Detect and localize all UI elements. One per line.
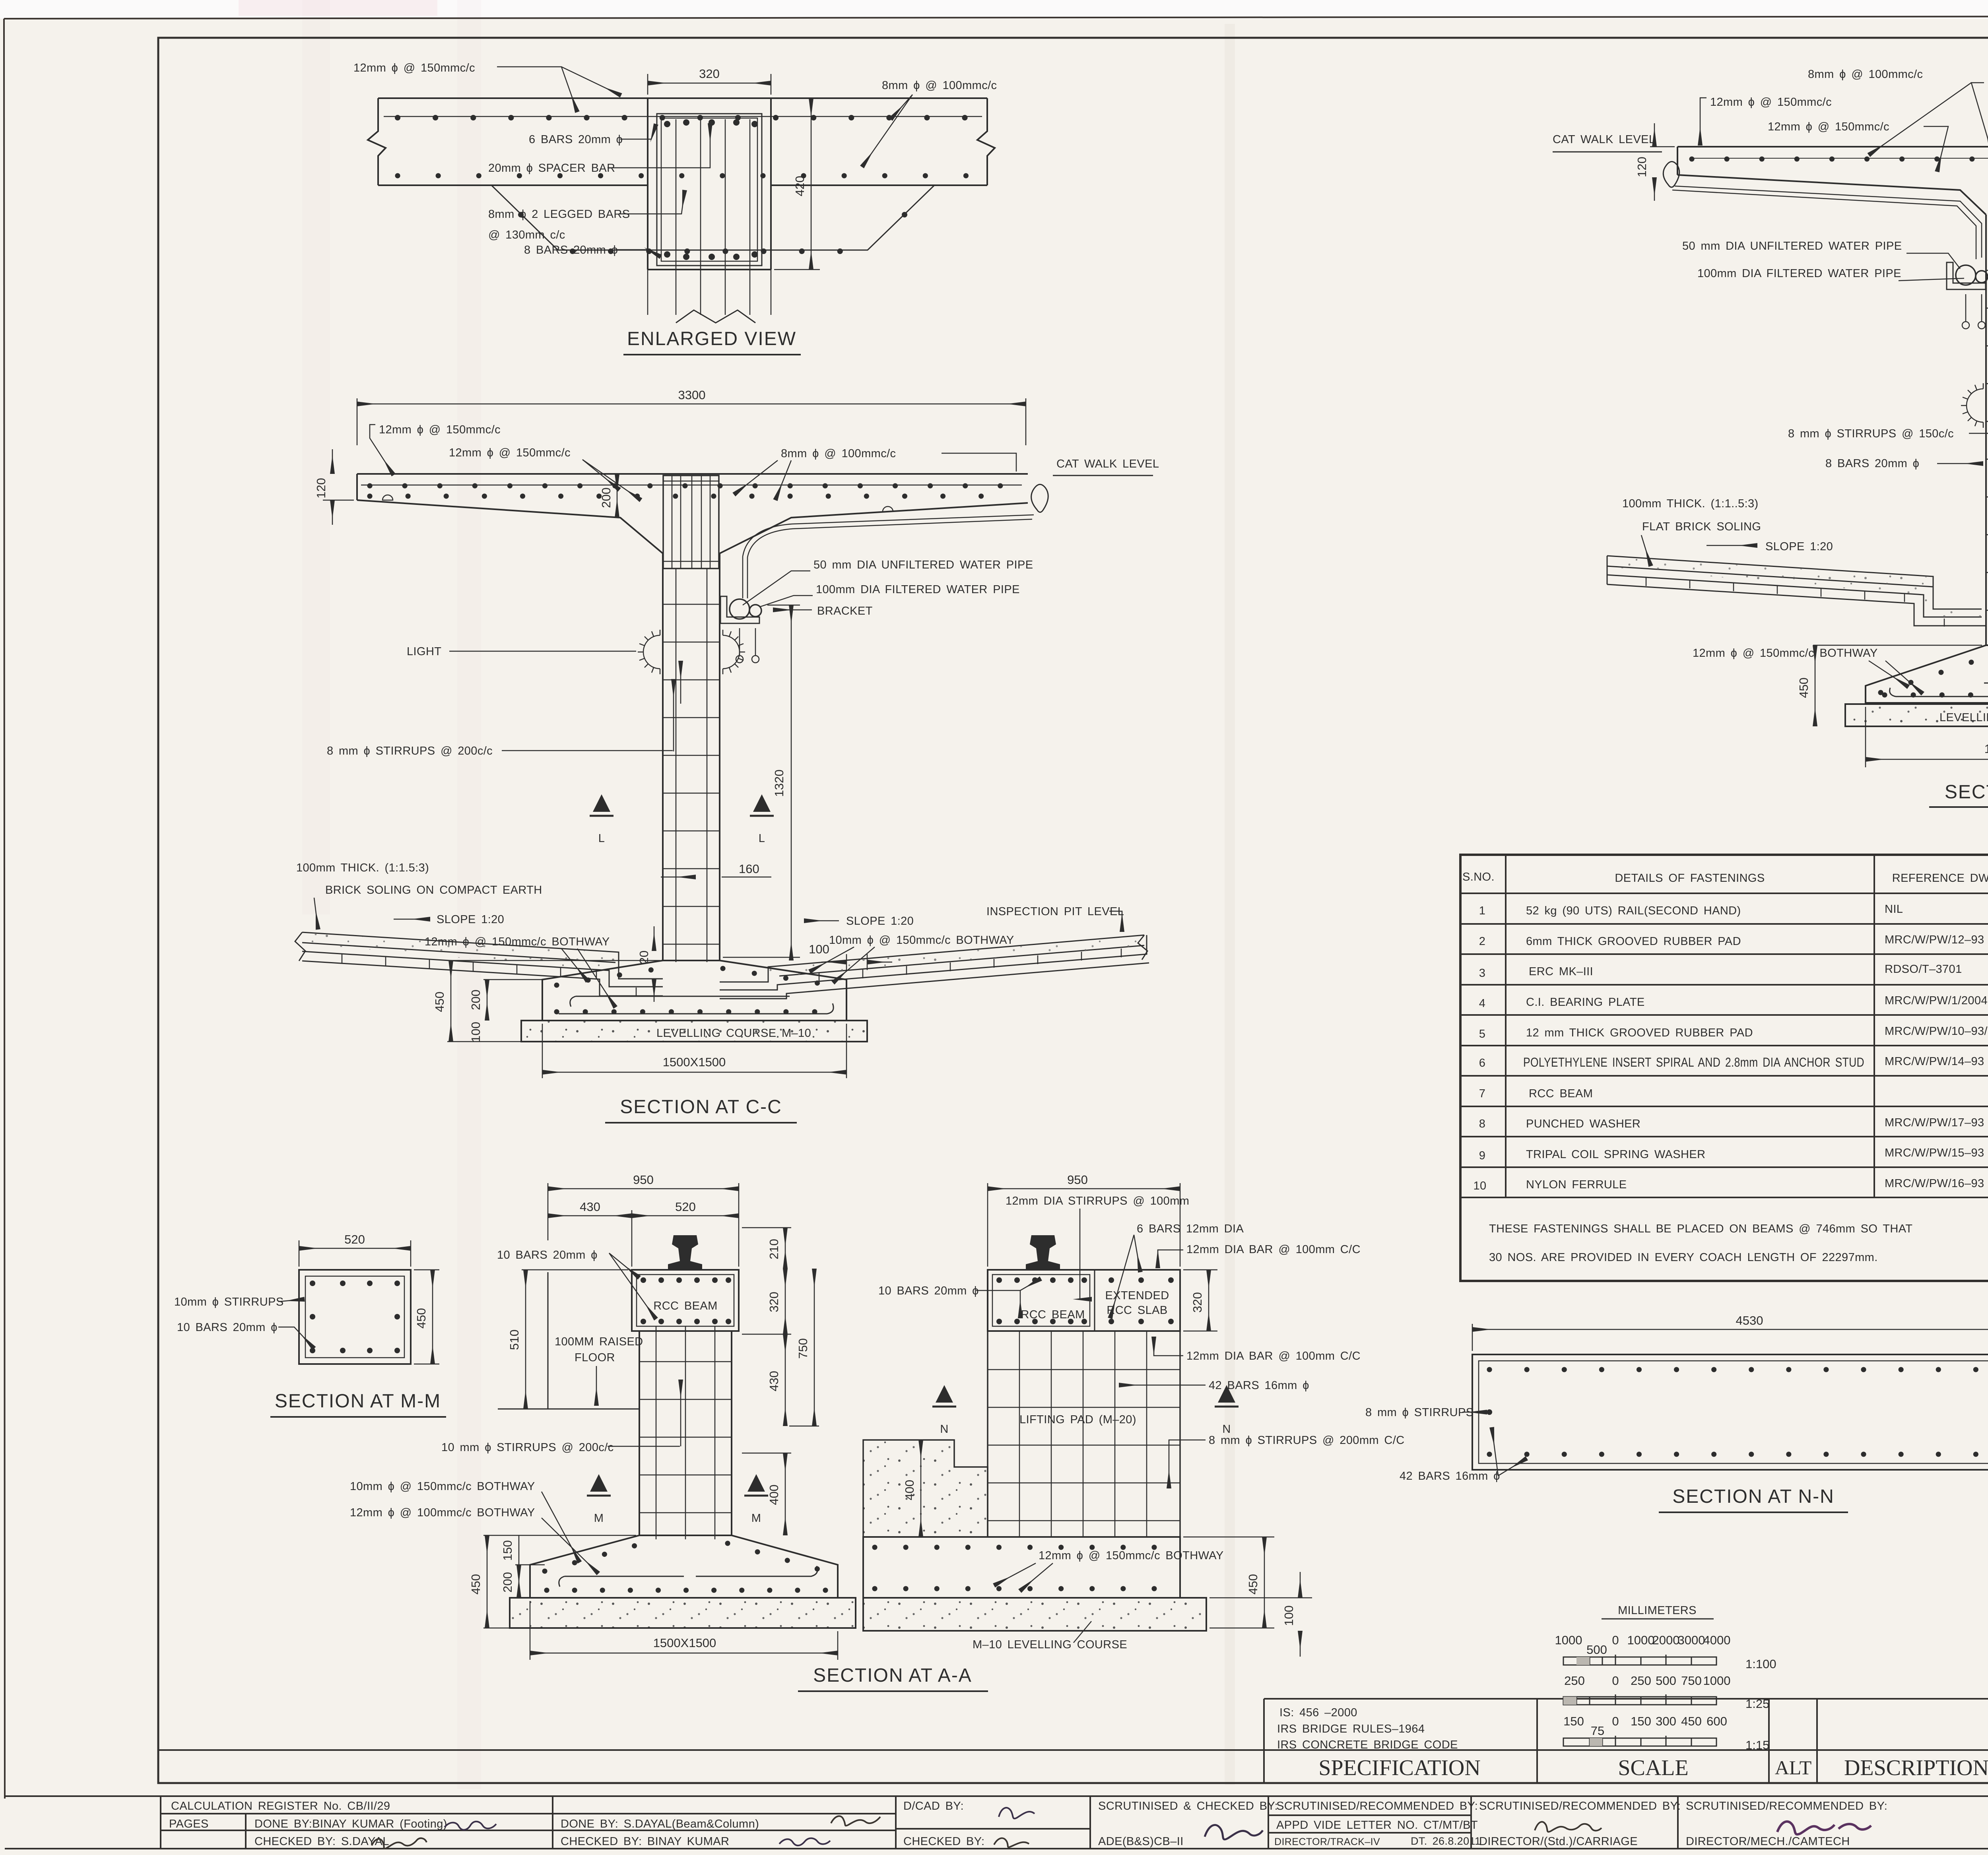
svg-text:10 BARS 20mm ϕ: 10 BARS 20mm ϕ [878, 1285, 979, 1297]
enlarged view dim 420 [774, 98, 820, 270]
svg-text:IRS CONCRETE BRIDGE CODE: IRS CONCRETE BRIDGE CODE [1277, 1739, 1458, 1751]
svg-text:MRC/W/PW/17–93: MRC/W/PW/17–93 [1885, 1116, 1984, 1129]
section A-A dim 510 [522, 1270, 628, 1409]
svg-text:SCRUTINISED & CHECKED BY:: SCRUTINISED & CHECKED BY: [1098, 1800, 1278, 1812]
svg-text:42 BARS 16mm ϕ: 42 BARS 16mm ϕ [1400, 1470, 1500, 1482]
svg-text:8 BARS 20mm ϕ: 8 BARS 20mm ϕ [1825, 457, 1919, 470]
svg-text:1:100: 1:100 [1745, 1657, 1776, 1671]
svg-text:MRC/W/PW/16–93: MRC/W/PW/16–93 [1885, 1177, 1984, 1190]
svg-text:ALT: ALT [1775, 1756, 1812, 1779]
signature s.dayal 1 [372, 1838, 427, 1849]
section C-C levelling course [521, 1021, 867, 1042]
svg-text:REFERENCE DWG.: REFERENCE DWG. [1892, 872, 1988, 885]
svg-text:M: M [751, 1512, 761, 1525]
svg-text:MRC/W/PW/1/2004: MRC/W/PW/1/2004 [1885, 994, 1988, 1007]
svg-text:RCC BEAM: RCC BEAM [1529, 1087, 1593, 1100]
section B-B slab [1677, 147, 1988, 215]
svg-text:12mm ϕ @ 150mmc/c BOTHWAY: 12mm ϕ @ 150mmc/c BOTHWAY [425, 935, 610, 948]
lifting pad levelling [863, 1598, 1206, 1631]
svg-text:1000: 1000 [1703, 1674, 1731, 1688]
dim 1500x1500 C-C [542, 1024, 846, 1078]
light burst left C-C [638, 630, 660, 674]
svg-text:RCC BEAM: RCC BEAM [653, 1300, 717, 1312]
svg-text:8 mm ϕ STIRRUPS @ 200c/c: 8 mm ϕ STIRRUPS @ 200c/c [327, 745, 493, 757]
svg-text:4000: 4000 [1703, 1633, 1731, 1647]
signature dcad checked [994, 1838, 1029, 1847]
svg-text:10 mm ϕ STIRRUPS @ 200c/c: 10 mm ϕ STIRRUPS @ 200c/c [441, 1441, 614, 1454]
svg-text:12mm ϕ @ 150mmc/c: 12mm ϕ @ 150mmc/c [1710, 96, 1832, 109]
section C-C embedded beam [663, 475, 719, 569]
signature dcad [999, 1808, 1035, 1818]
dims 450 200 100 C-C [447, 960, 660, 1042]
enlarged view slab [368, 98, 995, 185]
floor right stipple C-C [768, 936, 1144, 982]
enlarged view column bars below [648, 119, 771, 323]
dim 400 in block [920, 1440, 922, 1537]
section A-A dim 320 [742, 1269, 791, 1334]
section C-C slab notches [382, 495, 893, 512]
enlarged view beam [648, 98, 771, 270]
section N-N stirrup [1479, 1361, 1988, 1463]
svg-text:8 mm ϕ STIRRUPS: 8 mm ϕ STIRRUPS [1365, 1406, 1474, 1419]
svg-text:12mm ϕ @ 150mmc/c BOTHWAY: 12mm ϕ @ 150mmc/c BOTHWAY [1693, 647, 1878, 660]
svg-text:ENLARGED VIEW: ENLARGED VIEW [627, 328, 796, 349]
section M-M dim 450 [414, 1270, 439, 1364]
svg-text:SPECIFICATION: SPECIFICATION [1318, 1756, 1481, 1780]
dim 450 B-B [1813, 645, 1982, 726]
svg-text:9: 9 [1479, 1149, 1486, 1162]
datum M right [744, 1474, 768, 1496]
floor left stipple C-C [302, 933, 619, 979]
svg-text:2: 2 [1479, 935, 1486, 948]
svg-text:4: 4 [1479, 997, 1486, 1010]
svg-text:12mm DIA STIRRUPS @ 100mm: 12mm DIA STIRRUPS @ 100mm [1006, 1195, 1189, 1207]
svg-text:ERC MK–III: ERC MK–III [1529, 965, 1593, 978]
enlarged view spacer bars chord [491, 185, 934, 250]
dim 1320 C-C [723, 605, 800, 960]
svg-text:C.I. BEARING PLATE: C.I. BEARING PLATE [1526, 996, 1645, 1009]
svg-text:THESE FASTENINGS SHALL BE: THESE FASTENINGS SHALL BE PLACED ON BEAM… [1489, 1222, 1912, 1235]
light burst right C-C [723, 630, 745, 674]
svg-text:NYLON FERRULE: NYLON FERRULE [1526, 1178, 1627, 1191]
section N-N top bars [1489, 1367, 1988, 1372]
svg-text:CHECKED BY: BINAY KUMAR: CHECKED BY: BINAY KUMAR [561, 1835, 729, 1848]
svg-text:LIGHT: LIGHT [407, 645, 441, 658]
svg-text:LEVELLING COURSE M–10: LEVELLING COURSE M–10 [656, 1027, 811, 1040]
svg-text:120: 120 [1635, 157, 1649, 177]
svg-text:SECTION AT B-B: SECTION AT B-B [1945, 782, 1988, 803]
svg-text:N: N [940, 1423, 948, 1436]
section A-A raised floor [498, 1272, 639, 1409]
svg-text:10mm ϕ @ 150mmc/c BOTHWAY: 10mm ϕ @ 150mmc/c BOTHWAY [350, 1480, 535, 1493]
svg-text:450: 450 [433, 992, 447, 1012]
svg-text:430: 430 [580, 1200, 600, 1214]
svg-text:400: 400 [903, 1480, 916, 1500]
svg-text:DETAILS OF FASTENINGS: DETAILS OF FASTENINGS [1615, 872, 1765, 885]
svg-text:520: 520 [344, 1232, 365, 1246]
svg-text:SCRUTINISED/RECOMMENDED BY:: SCRUTINISED/RECOMMENDED BY: [1276, 1800, 1478, 1812]
svg-text:100mm THICK. (1:1..5:3): 100mm THICK. (1:1..5:3) [1622, 497, 1759, 510]
svg-text:MILLIMETERS: MILLIMETERS [1618, 1604, 1697, 1617]
svg-text:PUNCHED WASHER: PUNCHED WASHER [1526, 1118, 1640, 1130]
svg-text:750: 750 [1681, 1674, 1702, 1688]
svg-text:FLOOR: FLOOR [575, 1351, 615, 1364]
svg-text:NIL: NIL [1885, 903, 1903, 916]
svg-text:SECTION AT A-A: SECTION AT A-A [813, 1665, 972, 1686]
section B-B footing [1866, 645, 1988, 703]
section A-A footing [530, 1535, 838, 1598]
svg-text:7: 7 [1479, 1087, 1486, 1100]
svg-text:250: 250 [1631, 1674, 1651, 1688]
dim 1500x1500 B-B [1866, 707, 1988, 767]
lifting pad dim 450 [1183, 1537, 1274, 1628]
section C-C slab top rebar [361, 485, 1022, 486]
section M-M bars [310, 1281, 400, 1353]
svg-text:200: 200 [599, 487, 613, 508]
svg-text:200: 200 [501, 1572, 514, 1593]
svg-text:RCC SLAB: RCC SLAB [1107, 1304, 1167, 1317]
svg-text:8mm ϕ @ 100mmc/c: 8mm ϕ @ 100mmc/c [781, 447, 896, 460]
floor left C-C [295, 932, 663, 996]
signature kumar 2 [779, 1838, 830, 1845]
svg-text:LEVELLING COURSE M–10: LEVELLING COURSE M–10 [1939, 711, 1988, 724]
svg-text:6 BARS 12mm DIA: 6 BARS 12mm DIA [1137, 1222, 1244, 1235]
svg-text:DT. 26.8.2011: DT. 26.8.2011 [1411, 1835, 1481, 1847]
svg-text:100mm DIA FILTERED WATER P: 100mm DIA FILTERED WATER PIPE [816, 583, 1020, 596]
svg-text:CALCULATION REGISTER No. CB: CALCULATION REGISTER No. CB/II/29 [171, 1800, 390, 1812]
table serial numbers [1473, 904, 1486, 1192]
svg-text:MRC/W/PW/15–93: MRC/W/PW/15–93 [1885, 1147, 1984, 1159]
section N-N bottom bars [1489, 1452, 1988, 1457]
section A-A dims 450 150 200 [483, 1535, 636, 1628]
svg-text:SLOPE 1:20: SLOPE 1:20 [846, 915, 914, 927]
svg-text:SCALE: SCALE [1618, 1756, 1688, 1780]
concrete block left of pad [863, 1440, 988, 1537]
lifting pad dim 100 [1209, 1572, 1312, 1657]
svg-text:N: N [1222, 1423, 1231, 1436]
table note [1489, 1222, 1912, 1264]
svg-text:150: 150 [1631, 1714, 1651, 1728]
svg-text:500: 500 [1586, 1643, 1607, 1657]
svg-text:5: 5 [1479, 1028, 1486, 1040]
svg-text:CAT WALK LEVEL: CAT WALK LEVEL [1553, 133, 1655, 146]
svg-text:APPD VIDE LETTER NO. CT/MT: APPD VIDE LETTER NO. CT/MT/BT [1276, 1819, 1478, 1832]
scan top margin [0, 0, 1988, 19]
section N-N outer [1472, 1354, 1988, 1470]
svg-text:DIRECTOR/(Std.)/CARRIAGE: DIRECTOR/(Std.)/CARRIAGE [1479, 1835, 1638, 1848]
svg-text:1000: 1000 [1627, 1633, 1655, 1647]
signature k anand [1535, 1822, 1602, 1832]
svg-text:10 BARS 20mm ϕ: 10 BARS 20mm ϕ [497, 1249, 598, 1261]
svg-text:450: 450 [1797, 677, 1811, 698]
svg-text:100: 100 [469, 1022, 483, 1042]
svg-text:320: 320 [1190, 1292, 1204, 1313]
datum N right [1215, 1385, 1239, 1407]
svg-text:MRC/W/PW/10–93/52: MRC/W/PW/10–93/52 [1885, 1025, 1988, 1038]
svg-text:320: 320 [767, 1292, 781, 1312]
section N-N side bars [1487, 1409, 1492, 1415]
svg-text:450: 450 [1246, 1574, 1260, 1595]
lifting pad dim 320 [1183, 1270, 1217, 1331]
svg-text:ADE(B&S)CB–II: ADE(B&S)CB–II [1098, 1835, 1184, 1848]
svg-text:2000: 2000 [1652, 1633, 1680, 1647]
svg-text:S.NO.: S.NO. [1462, 871, 1495, 883]
svg-text:750: 750 [796, 1338, 810, 1359]
svg-text:MRC/W/PW/12–93: MRC/W/PW/12–93 [1885, 933, 1984, 946]
pink scan smudge top [239, 0, 437, 16]
svg-text:3000: 3000 [1678, 1633, 1705, 1647]
svg-text:8: 8 [1479, 1118, 1486, 1130]
svg-text:8mm ϕ @ 100mmc/c: 8mm ϕ @ 100mmc/c [1808, 68, 1923, 81]
section C-C pipes under slab [743, 515, 1034, 598]
svg-text:210: 210 [767, 1239, 781, 1259]
section M-M stirrup [305, 1276, 404, 1358]
svg-text:DONE BY:BINAY KUMAR (Footin: DONE BY:BINAY KUMAR (Footing) [254, 1818, 447, 1830]
lifting pad grid block [988, 1331, 1180, 1537]
svg-text:8mm ϕ 2 LEGGED BARS: 8mm ϕ 2 LEGGED BARS [488, 208, 630, 221]
scale bar 1:25 [1564, 1674, 1730, 1688]
svg-text:TRIPAL COIL SPRING WASHER: TRIPAL COIL SPRING WASHER [1526, 1148, 1705, 1161]
svg-text:DIRECTOR/TRACK–IV: DIRECTOR/TRACK–IV [1274, 1836, 1380, 1847]
pink scan streak left [302, 0, 330, 914]
svg-text:0: 0 [1612, 1714, 1619, 1728]
svg-text:RDSO/T–3701: RDSO/T–3701 [1885, 963, 1962, 976]
signature camtech purple [1777, 1822, 1871, 1834]
lifting pad beam and extended slab [988, 1270, 1180, 1331]
svg-text:SECTION AT C-C: SECTION AT C-C [620, 1096, 782, 1118]
section B-B dim 120 left [1650, 123, 1675, 201]
section A-A dims 430 520 [548, 1210, 739, 1267]
svg-text:12mm ϕ @ 150mmc/c: 12mm ϕ @ 150mmc/c [1768, 120, 1889, 133]
section C-C footing [542, 960, 846, 1021]
svg-text:1000: 1000 [1555, 1633, 1582, 1647]
section A-A dim 430 [785, 1334, 786, 1426]
svg-text:450: 450 [414, 1308, 428, 1329]
svg-text:DIRECTOR/MECH./CAMTECH: DIRECTOR/MECH./CAMTECH [1686, 1835, 1850, 1848]
svg-text:12mm ϕ @ 150mmc/c: 12mm ϕ @ 150mmc/c [353, 62, 475, 74]
svg-text:0: 0 [1612, 1674, 1619, 1688]
section C-C column [663, 553, 720, 962]
section M-M outer [299, 1270, 411, 1364]
svg-text:12mm DIA BAR @ 100mm C/C: 12mm DIA BAR @ 100mm C/C [1186, 1243, 1361, 1256]
svg-text:1:25: 1:25 [1745, 1697, 1769, 1711]
svg-text:1500X1500: 1500X1500 [653, 1636, 716, 1650]
svg-text:1500X1500: 1500X1500 [1984, 742, 1988, 756]
svg-text:8mm ϕ @ 100mmc/c: 8mm ϕ @ 100mmc/c [882, 79, 997, 92]
enlarged view dim 320 [648, 74, 771, 95]
svg-text:4530: 4530 [1736, 1314, 1763, 1327]
svg-text:6mm THICK GROOVED RUBBER P: 6mm THICK GROOVED RUBBER PAD [1526, 935, 1741, 948]
bottom band rules [158, 1699, 1988, 1783]
datum L left C-C [590, 794, 613, 816]
section A-A dim 210 [742, 1228, 791, 1269]
floor brick joints B-B [1646, 577, 1944, 627]
svg-text:DESCRIPTION: DESCRIPTION [1844, 1756, 1988, 1780]
svg-text:M: M [594, 1512, 604, 1525]
svg-text:12mm ϕ @ 100mmc/c BOTHWAY: 12mm ϕ @ 100mmc/c BOTHWAY [350, 1506, 535, 1519]
svg-text:MRC/W/PW/14–93: MRC/W/PW/14–93 [1885, 1055, 1984, 1068]
svg-text:150: 150 [501, 1540, 514, 1561]
svg-text:DONE BY: S.DAYAL(Beam&Column: DONE BY: S.DAYAL(Beam&Column) [561, 1818, 759, 1830]
svg-text:1: 1 [1479, 904, 1486, 917]
svg-text:320: 320 [699, 67, 720, 81]
svg-text:12mm ϕ @ 150mmc/c: 12mm ϕ @ 150mmc/c [379, 423, 501, 436]
scan fold line center [1225, 24, 1235, 1785]
svg-text:BRICK SOLING ON COMPACT EA: BRICK SOLING ON COMPACT EARTH [325, 884, 542, 896]
svg-text:12mm ϕ @ 150mmc/c: 12mm ϕ @ 150mmc/c [449, 446, 571, 459]
floor left brick joints C-C [342, 954, 636, 996]
section B-B floor slab left [1607, 556, 1986, 626]
enlarged view slab top rebar [384, 116, 982, 117]
svg-text:1320: 1320 [772, 770, 786, 797]
footing rebar B-B [1881, 656, 1988, 697]
section B-B wall [1986, 147, 1988, 645]
section A-A beam [632, 1270, 739, 1331]
section C-C dim 120 [323, 449, 354, 525]
section N-N dim 4530 [1472, 1324, 1988, 1351]
section A-A dim 1500x1500 [530, 1601, 838, 1660]
svg-text:50 mm DIA UNFILTERED WATER: 50 mm DIA UNFILTERED WATER PIPE [1682, 240, 1902, 252]
svg-text:0: 0 [1612, 1633, 1619, 1647]
enlarged view beam rebar dots [664, 119, 758, 260]
svg-text:1:15: 1:15 [1745, 1738, 1769, 1752]
svg-text:100MM RAISED: 100MM RAISED [555, 1335, 643, 1348]
section C-C bracket pipes [720, 596, 761, 663]
svg-text:12mm DIA BAR @ 100mm C/C: 12mm DIA BAR @ 100mm C/C [1186, 1350, 1361, 1362]
svg-text:10: 10 [1473, 1180, 1486, 1192]
slope label right C-C [804, 920, 839, 922]
section M-M dim 520 [299, 1240, 411, 1267]
signature ade [1205, 1825, 1263, 1839]
svg-text:510: 510 [507, 1329, 521, 1350]
svg-text:1500X1500: 1500X1500 [663, 1055, 726, 1069]
svg-text:3300: 3300 [678, 388, 706, 402]
signature binay (footing) [445, 1822, 496, 1830]
svg-text:6: 6 [1479, 1057, 1486, 1069]
svg-text:520: 520 [675, 1200, 696, 1214]
svg-text:IRS BRIDGE RULES–1964: IRS BRIDGE RULES–1964 [1277, 1723, 1425, 1735]
svg-text:10mm ϕ STIRRUPS: 10mm ϕ STIRRUPS [174, 1296, 284, 1308]
svg-text:SECTION AT N-N: SECTION AT N-N [1672, 1486, 1835, 1507]
svg-text:SECTION AT M-M: SECTION AT M-M [275, 1391, 441, 1412]
svg-text:120: 120 [314, 478, 328, 499]
svg-text:LIFTING PAD (M–20): LIFTING PAD (M–20) [1019, 1413, 1136, 1426]
svg-text:SLOPE 1:20: SLOPE 1:20 [437, 913, 504, 926]
svg-text:IS: 456 –2000: IS: 456 –2000 [1279, 1706, 1357, 1719]
svg-text:250: 250 [1564, 1674, 1585, 1688]
signature strip frame [5, 1796, 1988, 1849]
datum N left [932, 1385, 956, 1407]
svg-text:CHECKED BY: S.DAYAL: CHECKED BY: S.DAYAL [254, 1835, 389, 1848]
svg-text:@ 130mm c/c: @ 130mm c/c [488, 229, 565, 241]
svg-text:CAT WALK LEVEL: CAT WALK LEVEL [1056, 458, 1159, 470]
lifting pad rail [1026, 1235, 1060, 1270]
slope label left C-C [394, 919, 430, 920]
lifting pad dim 950 [988, 1183, 1180, 1267]
svg-text:950: 950 [633, 1173, 654, 1187]
svg-text:BRACKET: BRACKET [817, 605, 873, 617]
section C-C slab end curl [1031, 484, 1048, 512]
section A-A rail [668, 1235, 702, 1270]
svg-text:300: 300 [1656, 1714, 1676, 1728]
svg-text:3: 3 [1479, 967, 1486, 980]
scale bar 1:15 [1563, 1714, 1727, 1738]
section B-B slab edge curl [1663, 161, 1679, 187]
svg-text:430: 430 [767, 1371, 781, 1391]
svg-text:8 BARS 20mm ϕ: 8 BARS 20mm ϕ [524, 244, 618, 256]
svg-text:FLAT BRICK SOLING: FLAT BRICK SOLING [1642, 520, 1761, 533]
svg-text:50 mm DIA UNFILTERED WATER: 50 mm DIA UNFILTERED WATER PIPE [813, 559, 1033, 571]
svg-text:12 mm THICK GROOVED RUBBER: 12 mm THICK GROOVED RUBBER PAD [1526, 1026, 1753, 1039]
svg-text:160: 160 [739, 862, 759, 876]
svg-text:SLOPE 1:20: SLOPE 1:20 [1765, 540, 1833, 553]
section B-B slab top rebar dots [1690, 158, 1988, 159]
floor stipple B-B [1607, 557, 1982, 617]
svg-text:100: 100 [1282, 1605, 1296, 1626]
svg-text:100: 100 [809, 942, 829, 956]
svg-text:52 kg (90 UTS) RAIL(SECOND: 52 kg (90 UTS) RAIL(SECOND HAND) [1526, 904, 1741, 917]
section B-B water pipes [1947, 262, 1988, 329]
svg-text:10 BARS 20mm ϕ: 10 BARS 20mm ϕ [177, 1321, 278, 1334]
section B-B underside pipes run [1675, 186, 1982, 258]
datum M left [587, 1474, 611, 1496]
svg-text:PAGES: PAGES [169, 1818, 209, 1830]
scale bar 1:100 [1555, 1633, 1731, 1657]
section B-B levelling course [1845, 704, 1988, 726]
table reference column [1885, 903, 1988, 1190]
svg-text:100mm THICK. (1:1.5:3): 100mm THICK. (1:1.5:3) [296, 862, 429, 874]
section A-A column [639, 1326, 732, 1539]
svg-text:6 BARS 20mm ϕ: 6 BARS 20mm ϕ [529, 133, 623, 146]
IS codes box [1277, 1706, 1458, 1751]
svg-text:20mm ϕ SPACER BAR: 20mm ϕ SPACER BAR [488, 162, 615, 175]
section A-A dim 950 [548, 1183, 739, 1267]
svg-text:M–10 LEVELLING COURSE: M–10 LEVELLING COURSE [973, 1638, 1127, 1651]
lifting pad base slab [863, 1537, 1180, 1598]
svg-text:L: L [598, 832, 605, 845]
section C-C dim 3300 [357, 398, 1026, 445]
svg-text:100mm DIA FILTERED WATER P: 100mm DIA FILTERED WATER PIPE [1697, 267, 1901, 280]
footing rebar C-C [557, 968, 833, 1014]
svg-text:450: 450 [1681, 1714, 1702, 1728]
svg-text:450: 450 [469, 1574, 483, 1595]
svg-text:POLYETHYLENE INSERT SPIRAL: POLYETHYLENE INSERT SPIRAL AND 2.8mm DIA… [1523, 1055, 1864, 1069]
svg-text:400: 400 [767, 1484, 781, 1505]
svg-text:200: 200 [469, 990, 483, 1010]
svg-text:D/CAD BY:: D/CAD BY: [903, 1800, 964, 1812]
slope label B-B [1706, 545, 1757, 546]
svg-text:SCRUTINISED/RECOMMENDED BY:: SCRUTINISED/RECOMMENDED BY: [1479, 1800, 1681, 1812]
svg-text:420: 420 [793, 176, 807, 196]
svg-text:10mm ϕ @ 150mmc/c BOTHWAY: 10mm ϕ @ 150mmc/c BOTHWAY [829, 934, 1014, 947]
svg-text:CHECKED BY:: CHECKED BY: [903, 1835, 984, 1848]
datum L right C-C [750, 794, 774, 816]
floor right C-C [720, 935, 1149, 999]
svg-text:150: 150 [1563, 1714, 1584, 1728]
svg-text:L: L [759, 832, 765, 845]
signature s.dayal 2 [831, 1816, 880, 1826]
svg-text:600: 600 [1706, 1714, 1727, 1728]
svg-text:500: 500 [1656, 1674, 1676, 1688]
section B-B light left [1961, 383, 1983, 428]
lifting pad beam dots [996, 1277, 1174, 1324]
section A-A beam dots [641, 1277, 731, 1324]
svg-text:EXTENDED: EXTENDED [1105, 1289, 1169, 1302]
svg-text:12mm ϕ @ 150mmc/c BOTHWAY: 12mm ϕ @ 150mmc/c BOTHWAY [1039, 1549, 1224, 1562]
section A-A levelling [510, 1598, 856, 1628]
svg-text:SCRUTINISED/RECOMMENDED BY:: SCRUTINISED/RECOMMENDED BY: [1686, 1800, 1887, 1812]
section A-A footing rebar [545, 1543, 827, 1590]
